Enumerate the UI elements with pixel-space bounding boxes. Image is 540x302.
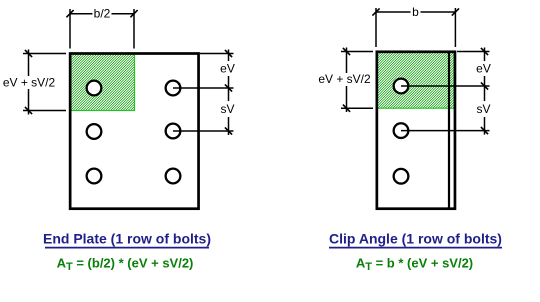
oblique tick right end of b/2 bbox=[130, 10, 137, 17]
dimension b/2 above end plate bbox=[66, 9, 137, 49]
bolt hole row 3 right column (end plate) bbox=[166, 169, 181, 184]
leader line from bolt row 2 to dimension line (clip angle) bbox=[401, 130, 490, 132]
dimension line b/2 right segment bbox=[112, 13, 135, 15]
dimension eV + sV/2 left of clip angle bbox=[341, 48, 373, 113]
dimension line eV+sV/2 upper segment (clip angle) bbox=[346, 48, 348, 74]
extension line from hatch bottom edge bbox=[23, 110, 66, 112]
bolt hole row 1 left column (end plate) bbox=[87, 81, 102, 96]
oblique tick top end of eV+sV/2 bbox=[25, 50, 32, 57]
extension line from clip angle top-right corner (eV) bbox=[457, 51, 490, 53]
leader line from bolt row 2 to dimension line bbox=[173, 130, 234, 132]
extension line from clip angle top-left corner bbox=[375, 8, 377, 47]
oblique tick at bolt row 1 (eV/sV) bbox=[225, 84, 232, 91]
oblique tick at bolt row 1 (eV/sV, clip angle) bbox=[481, 82, 488, 89]
svg-text:Clip Angle (1 row of bolts): Clip Angle (1 row of bolts) bbox=[329, 231, 502, 247]
bolt hole row 2 right column (end plate) bbox=[166, 124, 181, 139]
dimension line eV+sV/2 lower segment (clip angle) bbox=[346, 86, 348, 112]
oblique tick bottom end of eV+sV/2 (clip angle) bbox=[343, 105, 350, 112]
bolt hole row 2 left column (end plate) bbox=[87, 124, 102, 139]
bolt hole row 3 left column (end plate) bbox=[87, 169, 102, 184]
right title underline bbox=[329, 247, 502, 249]
dimension line eV upper segment bbox=[228, 50, 230, 62]
extension line from end plate top-left corner bbox=[69, 9, 71, 49]
dimension line b right segment bbox=[421, 11, 456, 13]
leader line from bolt row 1 to dimension line bbox=[173, 87, 234, 89]
hatched tension area A_T of clip angle (b x eV+sV/2) bbox=[377, 52, 454, 108]
dimension eV + sV/2 left of end plate bbox=[23, 50, 66, 115]
dimension line eV upper segment (clip angle) bbox=[484, 48, 486, 62]
svg-text:eV + sV/2: eV + sV/2 bbox=[3, 76, 56, 90]
svg-text:b/2: b/2 bbox=[94, 7, 111, 21]
oblique tick left end of b/2 bbox=[66, 10, 73, 17]
clip angle outline bbox=[377, 52, 455, 209]
extension line from end plate top edge bbox=[23, 53, 66, 55]
dimension line eV/sV middle segment (clip angle) bbox=[484, 76, 486, 101]
svg-text:b: b bbox=[412, 5, 419, 19]
svg-text:eV: eV bbox=[476, 62, 491, 76]
oblique tick at plate top (eV) bbox=[225, 50, 232, 57]
oblique tick at bolt row 2 (sV) bbox=[225, 127, 232, 134]
oblique tick at bolt row 2 (sV, clip angle) bbox=[481, 127, 488, 134]
bolt hole row 3 (clip angle) bbox=[394, 169, 409, 184]
svg-text:sV: sV bbox=[476, 102, 490, 116]
dimensions eV and sV right of end plate bbox=[173, 50, 234, 136]
oblique tick right end of b bbox=[452, 8, 459, 15]
clip angle leg fold line bbox=[448, 52, 450, 209]
bolt hole row 1 (clip angle) bbox=[394, 79, 409, 94]
oblique tick left end of b bbox=[372, 8, 379, 15]
oblique tick at angle top (eV) bbox=[481, 48, 488, 55]
svg-text:sV: sV bbox=[220, 102, 234, 116]
hatched tension area A_T of end plate (b/2 x eV+sV/2) bbox=[71, 54, 135, 111]
dimension line eV+sV/2 upper segment bbox=[28, 50, 30, 77]
left title underline bbox=[45, 247, 209, 249]
extension line from end plate top mid (b/2) bbox=[133, 9, 135, 49]
oblique tick top end of eV+sV/2 (clip angle) bbox=[343, 48, 350, 55]
svg-text:AT = (b/2) * (eV + sV/2): AT = (b/2) * (eV + sV/2) bbox=[57, 256, 194, 274]
dimension b above clip angle bbox=[372, 8, 459, 47]
extension line from clip angle top edge bbox=[341, 51, 373, 53]
svg-text:End Plate (1 row of bolts): End Plate (1 row of bolts) bbox=[43, 231, 211, 247]
svg-text:eV: eV bbox=[220, 62, 235, 76]
extension line from clip angle top-right corner bbox=[454, 8, 456, 47]
svg-text:eV + sV/2: eV + sV/2 bbox=[318, 72, 371, 86]
dimension line sV lower segment (clip angle) bbox=[484, 117, 486, 135]
bolt hole row 1 right column (end plate) bbox=[166, 81, 181, 96]
dimension line b/2 left segment bbox=[70, 13, 93, 15]
dimension line b left segment bbox=[376, 11, 411, 13]
bolt hole row 2 (clip angle) bbox=[394, 123, 409, 138]
leader line from bolt row 1 to dimension line (clip angle) bbox=[401, 85, 490, 87]
end plate outline bbox=[70, 54, 198, 209]
extension line from hatch bottom edge (clip angle) bbox=[341, 107, 373, 109]
extension line from end plate top-right corner bbox=[200, 53, 234, 55]
dimension line eV+sV/2 lower segment bbox=[28, 89, 30, 115]
dimension line sV lower segment bbox=[228, 117, 230, 135]
dimension line eV/sV middle segment bbox=[228, 76, 230, 101]
dimensions eV and sV right of clip angle bbox=[401, 48, 490, 135]
svg-text:AT = b * (eV + sV/2): AT = b * (eV + sV/2) bbox=[356, 256, 473, 274]
oblique tick bottom end of eV+sV/2 bbox=[25, 107, 32, 114]
